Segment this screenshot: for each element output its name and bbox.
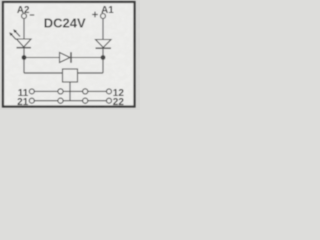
actuator link from coil to contacts [69, 82, 71, 101]
contact circle right row2 [83, 98, 88, 103]
wire A2 down to LED [23, 19, 25, 40]
contact circle left row1 [58, 89, 63, 94]
wire LED to junction and down to bottom rail [23, 49, 25, 74]
page background [0, 0, 140, 110]
scan grain overlay [0, 0, 140, 110]
LED D1 cathode bar [17, 47, 32, 49]
wire diode to bottom rail right [102, 49, 104, 73]
schematic border frame [3, 2, 135, 107]
contact circle left row2 [58, 98, 63, 103]
wire 11 to contact [34, 90, 58, 92]
terminal 12 [107, 89, 112, 94]
contact circle right row1 [83, 89, 88, 94]
terminal A2 [22, 14, 27, 19]
wire contact to 12 [88, 90, 107, 92]
terminal 11 [29, 89, 34, 94]
relay coil K1 box [63, 69, 78, 82]
contact arm row1 [63, 90, 83, 92]
terminal A1 [101, 14, 106, 19]
LED emission arrow 1 [15, 31, 21, 37]
terminal 22 [107, 98, 112, 103]
diode D2 cathode bar [70, 52, 72, 63]
wire 21 to contact [34, 100, 58, 102]
wire contact to 22 [88, 100, 107, 102]
minus sign at A2 [30, 14, 34, 16]
junction node left [22, 55, 27, 60]
LED D1 triangle [17, 39, 32, 47]
top rail wire right [72, 57, 104, 59]
bottom rail wire left [24, 72, 63, 74]
diode D3 triangle (series, right branch) [96, 40, 112, 48]
contact arm row2 [63, 100, 83, 102]
plus sign at A1 [92, 14, 98, 16]
terminal 21 [29, 98, 34, 103]
junction node right [101, 55, 106, 60]
bottom rail wire right [78, 72, 104, 74]
wire A1 down to diode [102, 19, 104, 40]
diode D3 cathode bar [96, 47, 112, 49]
top rail wire left [24, 57, 60, 59]
LED emission arrow 2 [11, 34, 17, 40]
diode D2 triangle (freewheel, on top rail) [60, 53, 71, 63]
